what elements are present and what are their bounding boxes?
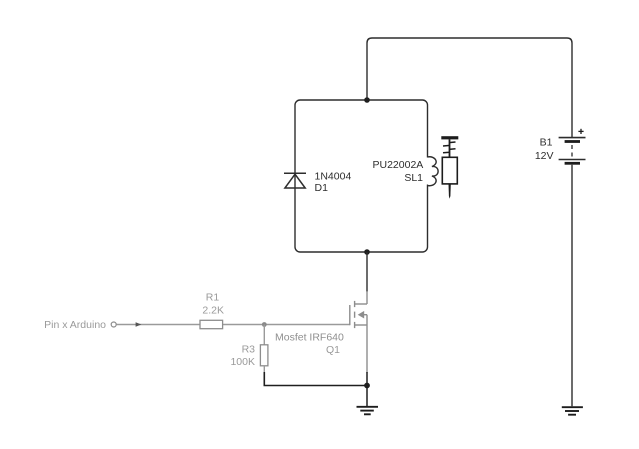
wire node C down to R3	[263, 325, 265, 346]
wire R3 bottom to ground rail	[263, 366, 265, 373]
diode D1	[284, 173, 306, 188]
svg-text:Q1: Q1	[326, 344, 340, 356]
battery B1	[559, 129, 586, 164]
node A junction dot top of box	[364, 97, 370, 103]
svg-text:1N4004: 1N4004	[315, 171, 352, 183]
drain contact	[354, 301, 356, 307]
svg-text:Mosfet IRF640: Mosfet IRF640	[275, 332, 344, 344]
body contact with arrow	[354, 312, 356, 318]
ground under mosfet	[357, 407, 379, 415]
ground under battery	[562, 407, 583, 415]
svg-text:Pin x Arduino: Pin x Arduino	[44, 319, 106, 331]
svg-text:SL1: SL1	[404, 172, 423, 184]
source contact	[354, 322, 356, 328]
resistor R3	[260, 345, 268, 366]
svg-text:R1: R1	[206, 292, 220, 304]
svg-text:R3: R3	[242, 344, 256, 356]
wire gate line from terminal to mosfet	[116, 324, 349, 326]
wire battery minus down to ground	[571, 165, 573, 407]
spring stem	[449, 139, 451, 157]
wire node D to ground	[366, 386, 368, 407]
body	[442, 157, 457, 184]
wire loop box around D1 and SL1	[295, 100, 428, 252]
svg-text:PU22002A: PU22002A	[373, 159, 424, 171]
svg-text:12V: 12V	[535, 150, 554, 162]
node B junction dot bottom of box	[364, 249, 370, 255]
spring ticks	[449, 141, 456, 144]
rod	[449, 184, 451, 199]
mosfet Q1	[350, 301, 367, 328]
wire gap for coil on right edge	[426, 158, 429, 185]
node D junction dot source/ground	[364, 383, 370, 389]
solenoid coil SL1 on right edge of box	[428, 157, 439, 186]
svg-text:2.2K: 2.2K	[202, 304, 224, 316]
solenoid plunger icon	[441, 136, 458, 199]
T-bar	[441, 136, 458, 139]
gate bar	[349, 305, 351, 325]
arrowhead on gate wire	[136, 322, 142, 327]
svg-text:100K: 100K	[230, 356, 255, 368]
wire node B to mosfet drain	[366, 252, 368, 292]
plus mark	[578, 130, 583, 132]
resistor R1	[200, 320, 223, 328]
wire top rail from node A to battery +	[367, 38, 572, 137]
node C junction dot gate/R3	[262, 322, 267, 327]
svg-text:D1: D1	[315, 182, 329, 194]
svg-text:B1: B1	[540, 137, 553, 149]
wire mosfet source down	[366, 325, 368, 373]
